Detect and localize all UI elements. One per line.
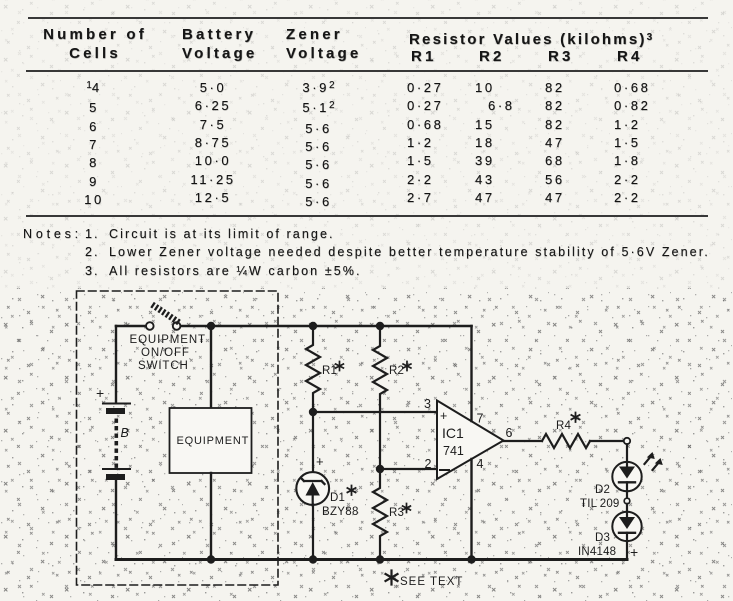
table header rule xyxy=(26,70,708,72)
wire: pin 7 to top rail xyxy=(470,326,472,421)
wire: pin 4 to bottom rail xyxy=(470,459,472,560)
junction: equipment tap on top rail xyxy=(207,322,215,330)
svg-text:741: 741 xyxy=(443,444,464,458)
svg-text:R1: R1 xyxy=(322,365,337,377)
svg-text:D3: D3 xyxy=(595,532,610,544)
wire: node A (R1/D1) to pin 3 xyxy=(313,411,437,413)
svg-text:7: 7 xyxy=(477,412,484,426)
label D3 IN4148 xyxy=(578,532,616,558)
wire: D2 to mid terminal xyxy=(626,491,628,498)
D1 + polarity mark xyxy=(316,454,324,469)
svg-text:IC1: IC1 xyxy=(442,425,464,441)
svg-text:2: 2 xyxy=(425,457,432,471)
terminal: open node between D2 and D3 xyxy=(624,498,630,504)
svg-text:EQUIPMENT: EQUIPMENT xyxy=(130,334,206,346)
dashed enclosure box (battery + equipment unit) xyxy=(77,291,279,585)
wire: D1 to bottom rail xyxy=(312,505,314,560)
op-amp pin labels and designator xyxy=(424,397,447,471)
table top rule xyxy=(28,17,708,19)
wire: equipment box to top rail xyxy=(210,326,212,408)
data column: cells xyxy=(60,79,128,209)
battery + polarity mark xyxy=(96,385,104,401)
zener diode D1 BZY88 xyxy=(296,472,329,505)
data column: zener voltage xyxy=(285,79,352,211)
data column: R2 xyxy=(475,79,515,207)
svg-text:+: + xyxy=(630,544,638,560)
junction: equipment at bottom rail xyxy=(207,555,215,563)
label D1 with asterisk xyxy=(330,492,345,504)
label R2 with asterisk xyxy=(389,365,404,377)
junction: R2 at top rail xyxy=(376,322,384,330)
data column: R4 xyxy=(614,79,650,207)
battery designator B xyxy=(121,426,129,440)
svg-text:IN4148: IN4148 xyxy=(578,546,616,558)
junction: node A on R1 bottom xyxy=(309,408,317,416)
equipment box xyxy=(170,408,252,473)
table bottom rule xyxy=(26,215,708,217)
wire: equipment box to bottom rail xyxy=(210,473,212,560)
resistor R4 xyxy=(542,434,590,448)
D3 + polarity mark xyxy=(630,544,638,560)
label R3 with asterisk xyxy=(389,507,404,519)
data column: R3 xyxy=(545,79,565,207)
wire: terminal down to LED D2 xyxy=(626,444,628,462)
svg-text:SEE TEXT: SEE TEXT xyxy=(400,576,463,588)
junction: R3 at bottom rail xyxy=(376,555,384,563)
label R1 with asterisk xyxy=(322,365,337,377)
svg-text:ON/OFF: ON/OFF xyxy=(141,347,190,359)
svg-text:TIL 209: TIL 209 xyxy=(580,498,620,510)
data column: battery voltage xyxy=(178,79,248,207)
svg-text:R3: R3 xyxy=(389,507,404,519)
data column: R1 xyxy=(407,79,443,207)
column header: Resistor Values (kilohms)3 xyxy=(409,31,652,51)
label SEE TEXT xyxy=(400,576,463,588)
notes xyxy=(23,227,82,241)
svg-text:+: + xyxy=(316,454,324,469)
LED light arrows xyxy=(645,452,663,470)
label R4 with asterisk xyxy=(556,420,572,432)
label: EQUIPMENT xyxy=(177,435,250,447)
column header: Battery Voltage xyxy=(182,25,257,64)
sub headers R1 R2 R3 R4 xyxy=(411,47,437,66)
footnote asterisk star xyxy=(386,571,398,585)
resistor R2 xyxy=(373,326,387,465)
junction: pin 4 at bottom rail xyxy=(467,555,475,563)
label D2 TIL209 xyxy=(580,484,620,510)
svg-text:B: B xyxy=(121,426,129,440)
diode D3 IN4148 xyxy=(612,512,641,541)
junction: R1 at top rail xyxy=(309,322,317,330)
junction: D1 at bottom rail xyxy=(309,555,317,563)
wire: output pin 6 to R4 xyxy=(504,440,543,442)
svg-text:4: 4 xyxy=(477,457,484,471)
column header: Zener Voltage xyxy=(286,25,361,64)
svg-text:D2: D2 xyxy=(595,484,610,496)
svg-text:+: + xyxy=(440,409,447,423)
wire: node A down to zener D1 xyxy=(312,412,314,473)
wire: D3 to bottom rail corner xyxy=(626,541,628,559)
LED D2 TIL209 xyxy=(612,462,641,491)
terminal: open node at R4/D2 corner xyxy=(624,438,630,444)
resistor R3 xyxy=(373,469,387,556)
wire: node B to pin 2 xyxy=(380,468,437,470)
svg-text:3: 3 xyxy=(424,397,431,411)
svg-text:6: 6 xyxy=(506,426,513,440)
label: EQUIPMENT ON/OFF SWITCH xyxy=(130,334,206,372)
switch S1 (equipment on/off) xyxy=(146,304,180,330)
op-amp IC1 741 xyxy=(437,401,504,480)
svg-text:D1: D1 xyxy=(330,492,345,504)
wire: top rail from battery to IC supply corner xyxy=(116,325,472,328)
wire: R4 to output terminal xyxy=(590,440,624,442)
column header: Number of Cells xyxy=(40,25,150,64)
svg-text:EQUIPMENT: EQUIPMENT xyxy=(177,435,250,447)
svg-text:R4: R4 xyxy=(556,420,572,432)
wire: bottom rail xyxy=(116,558,627,561)
resistor R1 xyxy=(306,326,320,412)
battery B xyxy=(103,326,130,560)
svg-text:R2: R2 xyxy=(389,365,404,377)
junction: node B (R2/R3/pin2) xyxy=(376,465,384,473)
svg-text:SWITCH: SWITCH xyxy=(138,360,189,372)
svg-text:BZY88: BZY88 xyxy=(322,506,359,518)
svg-text:+: + xyxy=(96,385,104,401)
wire: mid terminal to D3 xyxy=(626,504,628,512)
